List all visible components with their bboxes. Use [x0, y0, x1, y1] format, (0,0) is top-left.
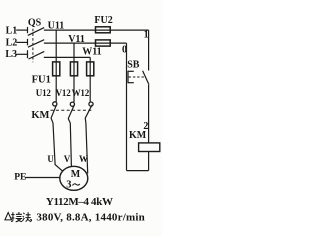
- svg-text:L3: L3: [5, 49, 17, 60]
- svg-text:SB: SB: [127, 59, 140, 70]
- svg-text:QS: QS: [28, 18, 42, 29]
- svg-text:KM: KM: [31, 110, 49, 121]
- svg-text:Y112M–4 4kW: Y112M–4 4kW: [46, 196, 113, 208]
- svg-text:V12: V12: [56, 88, 72, 98]
- svg-text:V11: V11: [68, 34, 85, 45]
- svg-text:L2: L2: [6, 37, 18, 48]
- svg-text:W: W: [79, 154, 88, 164]
- svg-text:3: 3: [66, 180, 71, 191]
- svg-text:380V, 8.8A, 1440r/min: 380V, 8.8A, 1440r/min: [36, 211, 145, 223]
- svg-text:U: U: [47, 154, 54, 164]
- svg-text:KM: KM: [129, 130, 147, 141]
- svg-text:L1: L1: [6, 25, 18, 36]
- svg-text:PE: PE: [14, 172, 26, 182]
- svg-text:W12: W12: [72, 88, 90, 98]
- svg-text:W11: W11: [82, 47, 101, 58]
- svg-text:FU1: FU1: [32, 74, 51, 85]
- svg-text:M: M: [71, 169, 81, 180]
- svg-text:FU2: FU2: [94, 15, 112, 26]
- svg-text:U11: U11: [48, 21, 65, 32]
- svg-text:0: 0: [122, 45, 127, 56]
- svg-text:U12: U12: [36, 88, 52, 98]
- svg-text:V: V: [64, 154, 71, 164]
- svg-text:1: 1: [144, 30, 149, 41]
